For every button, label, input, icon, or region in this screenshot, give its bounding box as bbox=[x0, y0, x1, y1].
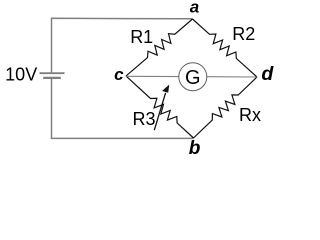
svg-text:R2: R2 bbox=[232, 24, 255, 44]
wire top-left loop bbox=[52, 18, 193, 73]
svg-text:10V: 10V bbox=[5, 64, 37, 84]
svg-text:c: c bbox=[114, 65, 124, 84]
wire bottom-left loop bbox=[52, 78, 194, 138]
svg-text:R3: R3 bbox=[132, 109, 155, 129]
battery V1 bbox=[40, 72, 65, 74]
svg-text:d: d bbox=[261, 63, 274, 85]
svg-text:G: G bbox=[185, 67, 201, 89]
wire G to d bbox=[207, 76, 257, 78]
resistor R1 bbox=[126, 19, 193, 76]
arrow of R3 bbox=[154, 93, 165, 130]
svg-text:Rx: Rx bbox=[239, 105, 261, 125]
wire c to G bbox=[126, 75, 179, 77]
svg-text:R1: R1 bbox=[130, 27, 153, 47]
svg-text:a: a bbox=[190, 0, 199, 17]
resistor R2 bbox=[193, 19, 258, 77]
svg-text:b: b bbox=[189, 138, 201, 159]
galvanometer G bbox=[179, 63, 207, 91]
resistor Rx bbox=[194, 77, 258, 138]
resistor R3 (variable) bbox=[126, 76, 194, 138]
